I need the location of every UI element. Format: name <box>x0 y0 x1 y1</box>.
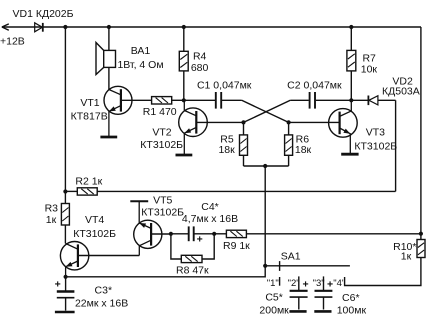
diode VD2 <box>368 96 395 106</box>
svg-text:+: + <box>303 279 309 291</box>
svg-text:КТ3102Б: КТ3102Б <box>73 228 116 240</box>
svg-text:КТ3102Б: КТ3102Б <box>141 206 184 218</box>
wire VD2 down to feedback bus <box>395 100 397 191</box>
svg-text:R3: R3 <box>45 202 59 214</box>
capacitor C1 <box>184 92 242 109</box>
svg-text:С5*: С5* <box>265 292 283 304</box>
wire VT4 emitter bus to SA1 junction <box>66 266 266 277</box>
node SA1 contact 1 <box>279 277 281 286</box>
capacitor C4 <box>171 226 214 241</box>
node SA1 contact 2 <box>298 276 300 290</box>
wire R5-R6 bottom link <box>244 165 289 167</box>
node arrow +12V (left arrowhead) <box>2 24 9 30</box>
wire VT3 base to right cross node <box>289 121 340 123</box>
svg-text:"3": "3" <box>313 278 325 289</box>
svg-text:VD1 КД202Б: VD1 КД202Б <box>13 8 74 20</box>
svg-text:R8 47к: R8 47к <box>176 264 209 276</box>
capacitor C5 <box>289 291 307 312</box>
svg-text:1к: 1к <box>46 214 57 226</box>
node SA1 contact 3 <box>323 276 325 290</box>
svg-text:VT2: VT2 <box>152 126 171 138</box>
resistor R2 <box>65 188 97 195</box>
transistor VT1 <box>104 86 132 136</box>
speaker BA1 <box>96 27 116 90</box>
svg-text:1Вт, 4 Ом: 1Вт, 4 Ом <box>117 59 163 71</box>
resistor R9 <box>214 230 421 237</box>
switch SA1 wiper contact tick <box>279 261 281 271</box>
capacitor C2 <box>290 92 368 109</box>
resistor R4 <box>179 27 188 100</box>
resistor R7 <box>347 27 356 100</box>
wire VT2 base to left cross node <box>196 121 243 123</box>
ground (VT1 emitter) <box>100 136 117 139</box>
capacitor C3 <box>55 277 75 312</box>
svg-text:R2 1к: R2 1к <box>75 175 102 187</box>
svg-text:VT3: VT3 <box>366 127 385 139</box>
svg-text:С6*: С6* <box>342 292 360 304</box>
wire right vertical rail <box>420 27 422 240</box>
resistor R1 <box>121 97 184 104</box>
svg-text:КТ817В: КТ817В <box>71 111 108 123</box>
svg-text:C2 0,047мк: C2 0,047мк <box>287 79 342 91</box>
svg-text:КТ3102Б: КТ3102Б <box>354 141 397 153</box>
resistor R10 <box>345 240 425 286</box>
resistor R3 <box>61 204 69 244</box>
capacitor C6 <box>314 291 332 312</box>
svg-text:200мк: 200мк <box>259 304 289 316</box>
transistor VT4 <box>60 242 139 277</box>
wire C2 diagonal to left node <box>244 100 291 122</box>
wire left vertical rail <box>64 27 66 204</box>
svg-text:КТ3102Б: КТ3102Б <box>140 139 183 151</box>
wire C1 diagonal to right node <box>242 100 289 122</box>
svg-text:"1": "1" <box>267 278 279 289</box>
svg-text:"2": "2" <box>288 278 300 289</box>
svg-text:100мк: 100мк <box>337 305 367 317</box>
switch SA1 wiper line <box>265 265 350 267</box>
node VT5 emitter top bar <box>130 200 148 202</box>
svg-text:"4": "4" <box>333 278 345 289</box>
transistor VT3 <box>329 100 358 153</box>
wire feedback bus R2 to VD2 <box>97 190 395 192</box>
svg-text:VT4: VT4 <box>85 214 104 226</box>
svg-text:R9 1к: R9 1к <box>223 240 250 252</box>
ground (VT2 emitter) <box>176 154 193 157</box>
svg-text:18к: 18к <box>218 144 235 156</box>
svg-text:+: + <box>55 278 61 290</box>
svg-text:R1 470: R1 470 <box>143 106 177 118</box>
resistor R5 <box>240 122 248 166</box>
svg-text:ВА1: ВА1 <box>131 45 151 57</box>
svg-text:22мк x 16В: 22мк x 16В <box>75 298 128 310</box>
transistor VT5 (emitter up) <box>134 201 171 255</box>
svg-text:+: + <box>197 233 203 245</box>
ground (VT3 emitter) <box>341 153 358 156</box>
svg-text:4,7мк x 16В: 4,7мк x 16В <box>182 213 238 225</box>
svg-text:18к: 18к <box>295 144 312 156</box>
svg-text:+12В: +12В <box>0 36 25 48</box>
svg-text:VT1: VT1 <box>80 97 99 109</box>
wire center feedback down to SA1 <box>264 166 266 266</box>
svg-text:КД503А: КД503А <box>382 85 420 97</box>
svg-text:1к: 1к <box>401 251 412 263</box>
svg-text:R4: R4 <box>193 50 207 62</box>
svg-text:VT5: VT5 <box>153 194 172 206</box>
svg-text:SA1: SA1 <box>281 251 301 263</box>
diode VD1 <box>35 23 43 32</box>
resistor R8 <box>171 234 214 263</box>
svg-text:C4*: C4* <box>201 201 219 213</box>
wire top +12V rail <box>2 26 421 28</box>
resistor R6 <box>285 122 293 166</box>
svg-text:C3*: C3* <box>95 285 113 297</box>
svg-text:C1 0,047мк: C1 0,047мк <box>197 79 252 91</box>
svg-text:+: + <box>327 279 333 291</box>
svg-text:10к: 10к <box>361 64 378 76</box>
svg-text:680: 680 <box>191 62 209 74</box>
transistor VT2 <box>179 100 208 154</box>
